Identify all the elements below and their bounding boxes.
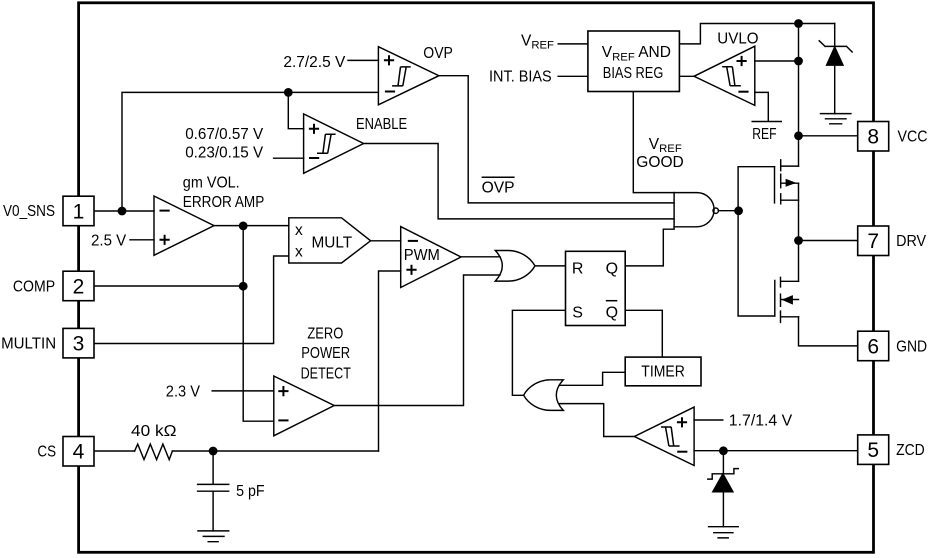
pin 1 box	[63, 196, 94, 226]
transistor upper MOSFET	[775, 160, 799, 204]
svg-text:VCC: VCC	[898, 129, 928, 146]
wire error amp output to MULT	[214, 225, 289, 227]
plus ENABLE	[309, 124, 319, 134]
wire VREF GOOD to NAND	[633, 92, 674, 193]
wire VCC rail	[798, 24, 800, 167]
pin 4 box	[63, 437, 94, 467]
wire OR1 output to flip-flop R	[535, 265, 566, 267]
zener lower triangle	[713, 474, 733, 492]
comparator PWM	[401, 227, 461, 288]
plus PWM	[406, 265, 416, 275]
wire gate bracket	[738, 167, 775, 316]
comparator UVLO	[694, 46, 755, 105]
minus PWM	[408, 240, 418, 242]
svg-text:BIAS REG: BIAS REG	[603, 65, 664, 82]
wire 1.7/1.4V to ZCD plus	[694, 419, 723, 421]
ground under upper zener	[821, 114, 851, 124]
svg-text:ENABLE: ENABLE	[356, 116, 407, 133]
svg-text:DRV: DRV	[896, 233, 927, 250]
wire PWM output to OR gate	[461, 256, 500, 258]
svg-text:ZERO: ZERO	[307, 325, 343, 342]
NAND gate	[674, 193, 714, 227]
wire UVLO plus to rail	[755, 60, 799, 62]
wire V0_SNS up to OVP inverting input	[122, 92, 378, 211]
svg-text:INT. BIAS: INT. BIAS	[489, 68, 552, 85]
wire CS net to PWM plus input	[379, 271, 401, 451]
svg-text:5 pF: 5 pF	[236, 483, 265, 500]
svg-text:8: 8	[867, 126, 879, 149]
svg-text:4: 4	[73, 441, 85, 464]
wire COMP pin2	[94, 285, 244, 287]
svg-text:3: 3	[73, 333, 85, 356]
wire 2.7/2.5V to OVP plus	[348, 59, 378, 61]
svg-text:Q: Q	[606, 261, 618, 278]
wire ZCD output to OR2	[560, 404, 635, 437]
wire 0.23/0.15V to ENABLE minus	[274, 157, 304, 159]
plus ZCD	[677, 417, 687, 427]
wire OVP output to NAND	[439, 76, 674, 203]
svg-text:x: x	[295, 222, 303, 239]
wire lower MOSFET source to GND pin	[799, 317, 859, 346]
wire NAND output to driver gates	[718, 210, 738, 212]
plus zero power detect	[278, 386, 288, 396]
zener diode lower	[708, 451, 739, 527]
svg-text:ERROR AMP: ERROR AMP	[183, 194, 264, 211]
wire OR2 output to flip-flop S	[512, 310, 565, 395]
zener upper triangle	[827, 47, 843, 65]
overline of OVP bar	[482, 176, 515, 178]
wire flip-flop Qbar to TIMER	[625, 310, 662, 357]
minus zero power detect	[278, 419, 288, 421]
svg-text:x: x	[295, 243, 303, 260]
svg-text:7: 7	[867, 230, 879, 253]
svg-text:5: 5	[867, 439, 879, 462]
svg-text:2.5 V: 2.5 V	[91, 233, 127, 250]
ground under lower zener	[709, 527, 739, 538]
comparator zero power detect	[274, 376, 334, 436]
wire bias box to UVLO apex	[679, 75, 694, 77]
wire COMP vertical to zero power detect minus	[243, 226, 274, 421]
pin 8 box	[858, 122, 889, 152]
wire 2.5V to error amp plus	[130, 239, 154, 241]
svg-text:COMP: COMP	[13, 278, 55, 295]
svg-text:OVP: OVP	[482, 179, 515, 196]
minus ZCD	[677, 451, 687, 453]
wire zero power detect output to OR gate	[334, 275, 500, 406]
svg-text:gm VOL.: gm VOL.	[183, 175, 240, 192]
OR gate U-OR1	[495, 251, 535, 282]
svg-text:1: 1	[73, 200, 85, 223]
svg-text:Q: Q	[606, 304, 618, 321]
pin 3 box	[63, 328, 94, 358]
wire branch to ENABLE plus input	[288, 92, 303, 128]
svg-text:MULTIN: MULTIN	[1, 336, 56, 353]
block RS flip-flop	[566, 251, 626, 325]
wire CS pin4 to resistor	[94, 450, 135, 452]
wire VCC pin wire	[799, 135, 858, 137]
wire MULTIN pin3 to MULT second input	[94, 256, 289, 344]
hysteresis symbol ENABLE	[317, 134, 336, 153]
svg-text:6: 6	[867, 335, 879, 358]
block TIMER	[625, 357, 701, 386]
svg-text:0.23/0.15 V: 0.23/0.15 V	[185, 144, 264, 161]
wire TIMER output to OR2	[560, 372, 626, 385]
svg-text:2.7/2.5 V: 2.7/2.5 V	[283, 54, 346, 71]
svg-text:2.3 V: 2.3 V	[166, 384, 201, 401]
svg-text:PWM: PWM	[404, 247, 440, 264]
svg-text:UVLO: UVLO	[717, 31, 758, 48]
wire INT BIAS label to bias box	[558, 75, 588, 77]
svg-text:REF: REF	[752, 126, 776, 143]
svg-text:CS: CS	[37, 443, 56, 460]
wire bias box to VCC rail and zener	[679, 24, 834, 44]
hysteresis symbol OVP	[392, 67, 411, 86]
hysteresis symbol UVLO	[722, 67, 741, 86]
overline of Qbar	[606, 300, 618, 302]
wire resistor to PWM vertical	[172, 450, 378, 452]
comparator ZCD	[634, 407, 694, 465]
zener diode upper	[819, 24, 852, 114]
wire UVLO minus to REF terminal	[752, 92, 781, 121]
pin 2 box	[63, 271, 94, 301]
capacitor 5 pF	[198, 451, 229, 531]
wire V0_SNS pin1 to error amp	[94, 210, 154, 212]
arrow lower MOSFET	[782, 295, 793, 305]
pin 5 box	[858, 435, 889, 465]
svg-text:GOOD: GOOD	[636, 154, 684, 171]
svg-text:R: R	[572, 261, 584, 278]
svg-text:DETECT: DETECT	[301, 365, 352, 382]
OR gate U-OR2 mirrored	[524, 380, 564, 411]
plus error amp	[160, 235, 170, 245]
boxes layer	[63, 31, 889, 466]
svg-text:V0_SNS: V0_SNS	[3, 203, 55, 220]
svg-text:40 kΩ: 40 kΩ	[131, 423, 177, 440]
svg-text:GND: GND	[896, 338, 927, 355]
comparator ENABLE	[304, 114, 364, 173]
svg-text:POWER: POWER	[301, 345, 350, 362]
svg-text:2: 2	[73, 275, 85, 298]
comparator OVP	[378, 47, 439, 105]
pin 7 box	[858, 226, 889, 256]
plus UVLO	[737, 56, 747, 66]
wire flip-flop Q to NAND input	[625, 227, 674, 266]
svg-text:TIMER: TIMER	[641, 364, 685, 381]
svg-text:0.67/0.57 V: 0.67/0.57 V	[185, 126, 264, 143]
op-amp error amplifier	[154, 196, 214, 255]
wire 2.3V to zero power detect plus	[212, 390, 274, 392]
resistor 40 kOhm	[135, 444, 173, 460]
svg-text:ZCD: ZCD	[896, 442, 925, 459]
block VREF AND BIAS REG	[588, 31, 680, 92]
transistor lower MOSFET	[775, 277, 799, 322]
svg-text:1.7/1.4 V: 1.7/1.4 V	[729, 413, 793, 430]
plus OVP	[384, 55, 394, 65]
wire ENABLE output to NAND	[364, 144, 674, 219]
NAND bubble	[713, 208, 718, 213]
wire MULT output to PWM minus	[371, 240, 401, 242]
hysteresis symbol ZCD	[661, 427, 680, 446]
wire DRV node	[799, 183, 858, 281]
wire VREF label to bias box	[558, 43, 588, 45]
svg-text:S: S	[572, 304, 583, 321]
minus OVP	[385, 91, 395, 93]
pin 6 box	[858, 331, 889, 361]
arrow upper MOSFET	[786, 179, 797, 187]
wire ZCD minus to pin5	[694, 450, 858, 452]
svg-text:OVP: OVP	[423, 45, 453, 62]
minus error amp	[160, 210, 170, 212]
minus UVLO	[738, 91, 748, 93]
svg-text:MULT: MULT	[312, 234, 353, 251]
minus ENABLE	[309, 157, 319, 159]
ground under capacitor	[198, 531, 229, 542]
multiplier MULT	[289, 218, 371, 263]
